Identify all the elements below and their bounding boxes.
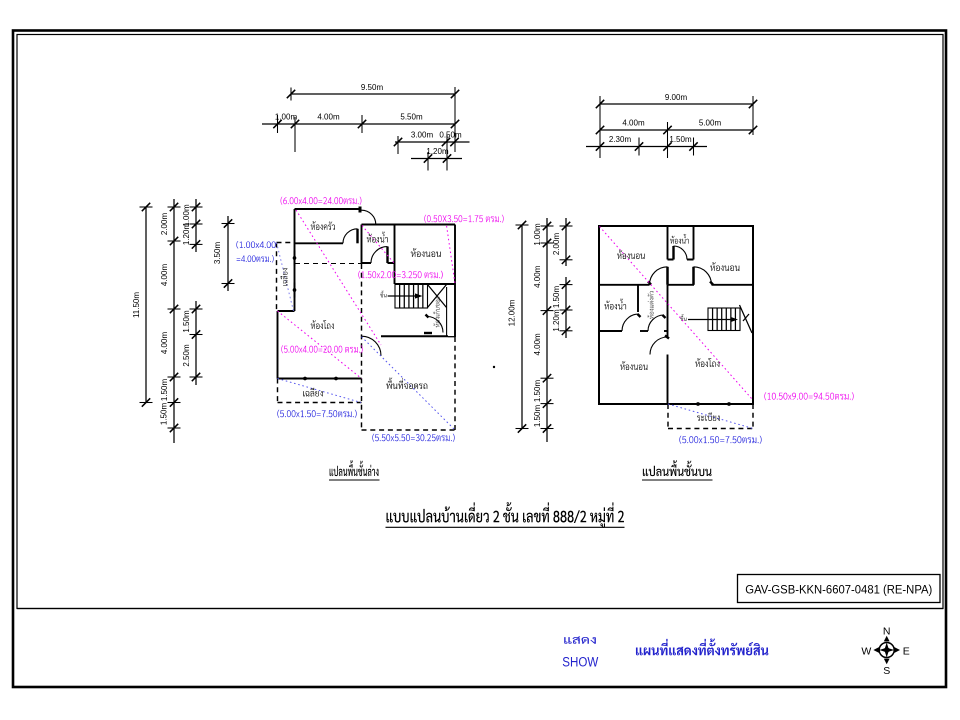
dim chain 2.00m 4.00m 4.00m 1.50m 1.50m	[173, 199, 175, 443]
blue area annotation porch upper two lines	[236, 241, 275, 249]
svg-text:1.50m: 1.50m	[160, 379, 169, 402]
svg-text:1.50m: 1.50m	[533, 380, 542, 403]
room label bedroom left plan	[411, 248, 441, 257]
window diamond bottom wall 2	[332, 377, 340, 381]
room label parking	[386, 378, 427, 390]
stairs break right plan	[740, 305, 753, 333]
window diamond bottom wall right plan 1	[694, 402, 702, 406]
svg-text:1.20m: 1.20m	[552, 309, 561, 332]
svg-text:0.50m: 0.50m	[439, 130, 462, 139]
bedroom2 door arc	[694, 267, 712, 285]
svg-text:1.50m: 1.50m	[669, 135, 692, 144]
room label kitchen	[311, 221, 335, 230]
dashed kitchen-hall boundary	[295, 263, 362, 265]
room label bath top-middle	[670, 234, 689, 244]
top bath bottom wall with door	[668, 259, 674, 261]
bedroom west wall	[394, 225, 396, 285]
magenta diagonal hall	[278, 311, 362, 379]
svg-text:5.00m: 5.00m	[699, 118, 722, 127]
room label dressing vertical	[647, 291, 653, 319]
caption ground floor plan	[330, 460, 379, 476]
room label porch vertical	[280, 268, 287, 285]
svg-text:1.50m: 1.50m	[552, 286, 561, 309]
magenta diagonal kitchen-hall	[296, 210, 381, 345]
svg-text:4.00m: 4.00m	[317, 112, 340, 121]
stairs left plan	[395, 284, 428, 308]
stairs label left plan	[380, 291, 386, 298]
bath bottom wall with door	[362, 262, 372, 264]
magenta diagonal right strip	[447, 226, 455, 284]
room label hall	[311, 320, 334, 329]
left porch wall lower	[277, 311, 279, 379]
compass rose	[873, 636, 900, 664]
window diamond left wall 2	[293, 286, 297, 294]
legend map title	[636, 639, 768, 656]
corridor south wall with door	[362, 336, 382, 356]
hall north wall middle segment	[668, 284, 695, 286]
dim chain 1.00m 1.20m	[195, 199, 197, 252]
blue area annotation balcony	[679, 436, 761, 444]
svg-text:2.50m: 2.50m	[182, 344, 191, 367]
window diamond left wall 1	[293, 254, 297, 262]
parking dashed boundary	[361, 264, 363, 430]
bedroom bottom wall	[395, 283, 456, 285]
svg-text:12.00m: 12.00m	[508, 299, 517, 326]
blue area annotation porch	[277, 410, 356, 418]
svg-text:SHOW: SHOW	[562, 655, 598, 670]
left wall kitchen-hall	[294, 209, 296, 311]
dim 1.00m 4.00m 5.50m	[262, 123, 455, 125]
blue diagonal balcony	[668, 404, 753, 429]
title block separator line	[17, 608, 943, 610]
svg-text:11.50m: 11.50m	[132, 292, 141, 318]
svg-text:4.00m: 4.00m	[622, 118, 645, 127]
hall bottom wall	[278, 378, 362, 380]
storage east wall	[446, 287, 448, 337]
svg-text:GAV-GSB-KKN-6607-0481 (RE-NPA): GAV-GSB-KKN-6607-0481 (RE-NPA)	[745, 585, 932, 597]
svg-text:3.50m: 3.50m	[213, 242, 222, 265]
stairs up arrow left plan	[388, 295, 420, 297]
svg-text:1.50m: 1.50m	[182, 310, 191, 333]
top bath west wall	[667, 226, 669, 260]
magenta area annotation strip	[424, 215, 503, 223]
porch strip diagonal	[277, 243, 294, 312]
svg-text:4.00m: 4.00m	[160, 332, 169, 355]
main title	[387, 502, 624, 528]
kitchen top wall	[295, 208, 362, 210]
reference number box	[738, 575, 941, 603]
svg-text:1.20m: 1.20m	[426, 147, 449, 156]
stairs right plan	[708, 308, 740, 331]
svg-text:4.00m: 4.00m	[533, 333, 542, 356]
blue diagonal parking	[362, 337, 456, 430]
bedroom1 door arc	[650, 267, 668, 285]
bath2 divider wall	[637, 285, 639, 312]
magenta area annotation bath	[358, 271, 442, 279]
dim 1.20m	[411, 158, 462, 160]
top bath east wall	[693, 226, 695, 260]
svg-text:1.00m: 1.00m	[533, 223, 542, 246]
svg-text:S: S	[883, 665, 890, 677]
magenta area annotation right plan	[764, 392, 853, 400]
dim 3.00m 0.50m	[395, 141, 470, 143]
caption upper floor plan	[643, 460, 712, 476]
dim chain 1.00m 4.00m 4.00m 1.50m 1.50m right plan	[546, 218, 548, 442]
stairs arrow right plan	[688, 319, 735, 321]
dim chain 1.50m 2.50m	[195, 301, 197, 385]
svg-text:1.50m: 1.50m	[160, 403, 169, 426]
room label bedroom top-right	[710, 262, 739, 271]
room label bath middle-left	[604, 299, 626, 310]
svg-text:2.00m: 2.00m	[552, 233, 561, 256]
stairs label right plan	[680, 314, 686, 321]
svg-text:W: W	[861, 646, 871, 658]
bath2 south wall with doors	[599, 330, 622, 332]
dim 4.00m 5.00m	[600, 129, 753, 131]
bedroom3 door arc	[650, 337, 668, 355]
window diamond bottom wall 1	[301, 377, 309, 381]
svg-text:N: N	[883, 626, 891, 638]
building right wall	[454, 225, 456, 338]
south wall thin extension	[448, 336, 455, 338]
magenta diagonal bath	[362, 226, 394, 264]
room label hall right plan	[695, 358, 719, 367]
upper wall bath-bedroom	[362, 224, 456, 226]
magenta area annotation kitchen	[281, 197, 362, 205]
bath west wall	[361, 225, 363, 264]
stray dot	[493, 366, 495, 368]
hall north wall west segment	[599, 284, 650, 286]
blue area annotation parking	[372, 434, 454, 442]
svg-text:4.00m: 4.00m	[533, 265, 542, 288]
svg-text:1.00m: 1.00m	[275, 112, 298, 121]
svg-text:2.30m: 2.30m	[609, 135, 632, 144]
svg-text:5.50m: 5.50m	[400, 112, 423, 121]
room label storage vertical	[433, 297, 440, 327]
magenta diagonal right plan	[600, 227, 753, 400]
room label balcony	[697, 412, 720, 421]
room label porch bottom	[303, 388, 323, 397]
dim 11.50m	[145, 207, 147, 403]
svg-text:9.50m: 9.50m	[361, 83, 384, 92]
dim 9.00m	[600, 103, 753, 105]
left wall jog	[278, 310, 295, 312]
kitchen bottom wall with door	[295, 242, 344, 244]
dim chain 2.00m 1.50m 1.20m right plan	[565, 218, 567, 266]
svg-text:3.00m: 3.00m	[411, 130, 434, 139]
kitchen door arc top	[362, 210, 376, 224]
svg-text:1.20m: 1.20m	[182, 223, 191, 246]
porch dashed upper left	[276, 243, 278, 312]
room label bedroom top-left	[617, 250, 645, 259]
porch dashed boundary left plan	[277, 379, 279, 403]
svg-text:9.00m: 9.00m	[665, 93, 688, 102]
stairs break X left plan	[428, 285, 447, 308]
storage door arc	[427, 317, 443, 333]
legend thai show	[564, 636, 596, 643]
hall north wall east segment	[712, 284, 754, 286]
right plan outline	[599, 226, 753, 404]
inner border frame	[17, 35, 943, 609]
room label bedroom bottom-left	[620, 361, 647, 370]
blue diagonal porch	[278, 379, 362, 403]
svg-text:2.00m: 2.00m	[160, 213, 169, 236]
hall west wall upper	[667, 285, 669, 337]
room label bath left plan	[367, 232, 388, 243]
magenta area annotation hall	[281, 345, 362, 353]
svg-text:4.00m: 4.00m	[160, 264, 169, 287]
window diamond bottom wall right plan 2	[725, 402, 733, 406]
svg-text:E: E	[903, 646, 910, 658]
hall west wall lower	[667, 355, 669, 405]
dim 2.30m 1.50m	[586, 146, 707, 148]
svg-text:1.50m: 1.50m	[533, 405, 542, 428]
dim 9.50m	[291, 93, 455, 95]
dim 12.00m	[521, 225, 523, 429]
balcony dashed boundary	[667, 404, 669, 429]
dim 3.50m	[227, 216, 229, 291]
